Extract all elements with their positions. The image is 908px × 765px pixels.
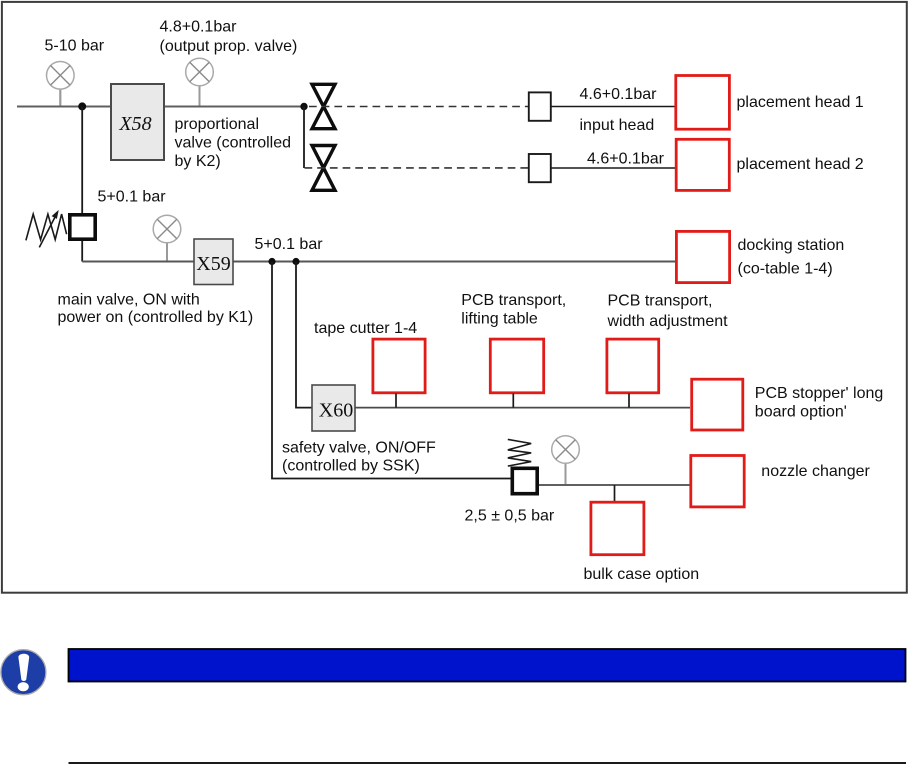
wire node D down to X60 row [296, 262, 312, 408]
svg-text:by K2): by K2) [175, 153, 221, 170]
wire line 2 right to docking [233, 261, 675, 263]
svg-text:power on (controlled by K1): power on (controlled by K1) [58, 309, 254, 326]
wire to placement head 1 [552, 106, 676, 108]
svg-text:bulk case option: bulk case option [584, 566, 700, 583]
wire to placement head 2 [552, 167, 676, 169]
svg-text:safety valve, ON/OFF: safety valve, ON/OFF [282, 439, 436, 456]
mandatory attention icon [1, 650, 46, 695]
wire node A down to regulator [81, 107, 83, 214]
node A junction dot [78, 102, 86, 110]
input head block 2 [529, 154, 551, 182]
svg-text:board option': board option' [755, 403, 847, 420]
frame border of schematic [2, 2, 907, 593]
tape cutter box [373, 339, 425, 393]
pressure regulator R2 [512, 468, 537, 493]
width adjustment box [607, 339, 659, 393]
svg-text:5+0.1 bar: 5+0.1 bar [255, 236, 324, 253]
gauge P3 [153, 215, 181, 260]
stem width adjustment [628, 394, 630, 408]
svg-text:4.6+0.1bar: 4.6+0.1bar [580, 86, 658, 103]
valve X60 safety valve [312, 385, 355, 431]
lifting table box [490, 339, 543, 393]
svg-text:5+0.1 bar: 5+0.1 bar [98, 188, 167, 205]
wire node B down to valve 2 branch [303, 107, 305, 169]
svg-text:(output prop. valve): (output prop. valve) [160, 38, 298, 55]
valve X58 proportional valve [111, 84, 164, 160]
svg-text:X60: X60 [319, 400, 353, 422]
svg-text:docking station: docking station [738, 237, 845, 254]
svg-text:2,5 ± 0,5 bar: 2,5 ± 0,5 bar [465, 508, 555, 525]
svg-text:main valve, ON with: main valve, ON with [58, 291, 200, 308]
placement head 1 box [676, 76, 730, 130]
shut-off valve V1 (bowtie) [312, 84, 335, 128]
svg-text:(controlled by SSK): (controlled by SSK) [282, 457, 420, 474]
stem tape cutter [395, 394, 397, 408]
node B junction dot [300, 103, 307, 110]
svg-text:input head: input head [580, 117, 655, 134]
svg-text:placement head 1: placement head 1 [737, 94, 864, 111]
notice banner [69, 649, 906, 682]
svg-text:nozzle changer: nozzle changer [761, 463, 870, 480]
wire X60 output row [355, 407, 690, 409]
svg-text:proportional: proportional [175, 116, 260, 133]
svg-text:tape cutter 1-4: tape cutter 1-4 [314, 320, 417, 337]
placement head 2 box [676, 139, 729, 190]
wire node C down to regulator R2 [272, 262, 511, 479]
svg-text:X58: X58 [118, 113, 151, 135]
spring of regulator R2 [508, 439, 531, 466]
PCB stopper box [692, 379, 743, 430]
node C junction dot [268, 258, 275, 265]
valve X59 main valve [194, 239, 233, 285]
gauge P4 [552, 436, 580, 484]
gauge P1 (5-10 bar) [47, 62, 75, 106]
node D junction dot [292, 258, 299, 265]
wire X58 output to node A [165, 106, 304, 108]
wire regulator to line 2 [81, 241, 83, 262]
svg-text:PCB transport,: PCB transport, [461, 292, 566, 309]
svg-text:4.8+0.1bar: 4.8+0.1bar [160, 19, 238, 36]
svg-text:4.6+0.1bar: 4.6+0.1bar [587, 150, 665, 167]
svg-text:X59: X59 [196, 253, 230, 275]
docking station box [676, 231, 729, 282]
bottom rule [69, 762, 907, 764]
adjustment arrow R1 [39, 212, 57, 247]
svg-text:width adjustment: width adjustment [607, 313, 729, 330]
svg-text:PCB transport,: PCB transport, [608, 292, 713, 309]
svg-text:valve (controlled: valve (controlled [175, 135, 292, 152]
svg-text:5-10 bar: 5-10 bar [45, 37, 105, 54]
shut-off valve V2 (bowtie) [312, 146, 335, 191]
nozzle changer box [691, 456, 744, 507]
svg-text:lifting table: lifting table [461, 311, 538, 328]
pressure regulator R1 [70, 215, 95, 239]
svg-text:placement head 2: placement head 2 [737, 156, 864, 173]
input head block 1 [529, 92, 551, 120]
svg-text:(co-table 1-4): (co-table 1-4) [738, 260, 833, 277]
wire main supply line y=106 [17, 106, 110, 108]
stem lifting table [512, 394, 514, 408]
wire R2 output [539, 484, 690, 486]
dashed hose to input head 2 [305, 167, 529, 169]
stem bulk case [614, 485, 616, 502]
dashed hose to input head 1 [309, 106, 528, 108]
wire line 2 left [82, 261, 194, 263]
bulk case box [591, 502, 644, 555]
gauge P2 (output prop. valve) [186, 58, 214, 105]
spring of regulator R1 [26, 214, 67, 240]
svg-text:PCB stopper' long: PCB stopper' long [755, 385, 883, 402]
